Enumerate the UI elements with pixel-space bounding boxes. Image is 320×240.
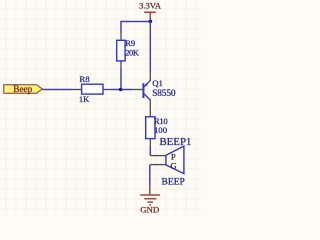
junction at base net xyxy=(119,88,123,92)
svg-text:1K: 1K xyxy=(79,94,90,104)
junction at power node xyxy=(149,20,153,24)
svg-text:Q1: Q1 xyxy=(152,78,163,88)
svg-text:20K: 20K xyxy=(125,48,139,57)
wire: R8 to base junction and on to Q1 base xyxy=(111,89,132,91)
Q1 base pin xyxy=(132,89,143,91)
svg-text:G: G xyxy=(171,161,177,171)
svg-text:S8550: S8550 xyxy=(152,89,176,99)
resistor R9 20K xyxy=(117,33,139,69)
svg-text:100: 100 xyxy=(154,125,168,135)
transistor Q1 S8550 xyxy=(143,73,176,109)
wire: port to R8 xyxy=(42,89,72,91)
svg-text:BEEP: BEEP xyxy=(162,178,185,188)
power port 3.3VA xyxy=(139,1,162,20)
svg-text:BEEP1: BEEP1 xyxy=(159,136,191,148)
speaker BEEP1 xyxy=(150,136,191,187)
wire: power junction down to Q1 emitter xyxy=(149,21,151,72)
svg-text:R8: R8 xyxy=(79,74,90,84)
resistor R8 1K xyxy=(73,74,112,104)
svg-text:Beep: Beep xyxy=(13,85,32,95)
svg-text:R9: R9 xyxy=(125,38,135,48)
background grid xyxy=(0,0,202,216)
wire: top rail from R9 branch to power junction xyxy=(121,22,150,34)
ground GND xyxy=(140,186,160,215)
wire: R9 bottom to base net junction xyxy=(120,69,122,90)
port Beep xyxy=(4,85,43,95)
svg-text:GND: GND xyxy=(140,205,159,215)
svg-text:3.3VA: 3.3VA xyxy=(139,1,162,11)
wire: R10 to speaker P pin xyxy=(149,146,151,156)
resistor R10 100 xyxy=(146,109,169,146)
wire: speaker G pin down to ground xyxy=(149,165,151,186)
